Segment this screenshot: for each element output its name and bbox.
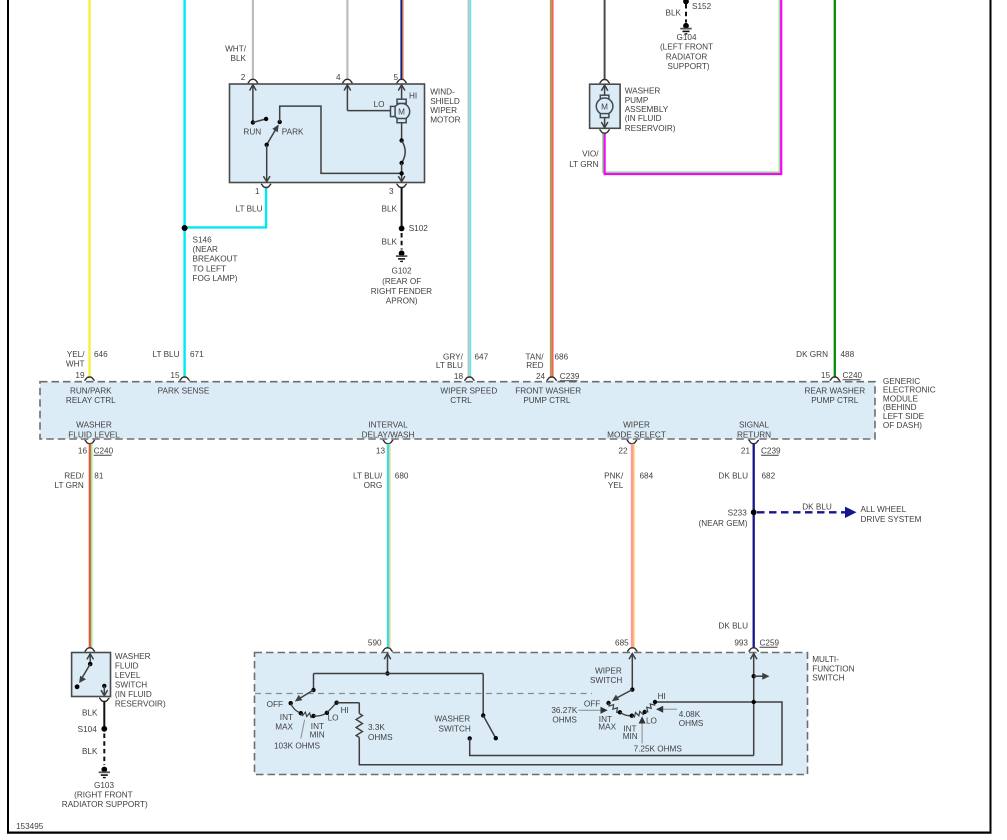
svg-text:(REAR OF: (REAR OF	[382, 277, 421, 286]
svg-text:BLK: BLK	[82, 747, 98, 756]
delay rotary HI contact	[334, 701, 348, 716]
svg-text:MULTI-: MULTI-	[812, 655, 839, 664]
svg-text:FLUID LEVEL: FLUID LEVEL	[68, 430, 120, 439]
wire washer switch contact to signal return	[470, 738, 754, 755]
svg-text:RETURN: RETURN	[737, 430, 771, 439]
svg-text:21: 21	[741, 446, 751, 455]
svg-text:DRIVE SYSTEM: DRIVE SYSTEM	[861, 515, 922, 524]
svg-text:15: 15	[170, 371, 180, 380]
svg-text:SWITCH: SWITCH	[590, 676, 622, 685]
svg-text:LT GRN: LT GRN	[55, 481, 84, 490]
connector pin 590 (MFS)	[368, 638, 393, 651]
svg-text:VIO/: VIO/	[582, 149, 599, 158]
svg-text:MODE SELECT: MODE SELECT	[607, 430, 666, 439]
wire motor bottom to park cam	[401, 123, 403, 141]
svg-text:685: 685	[615, 638, 629, 647]
svg-text:BREAKOUT: BREAKOUT	[193, 255, 238, 264]
wire WHT (wiper motor pin 4)	[346, 0, 348, 80]
svg-text:SHIELD: SHIELD	[430, 97, 460, 106]
svg-text:G103: G103	[94, 781, 114, 790]
wire WHT/BLK (wiper motor pin 2)	[225, 0, 253, 80]
svg-text:RELAY CTRL: RELAY CTRL	[66, 396, 116, 405]
svg-text:DK BLU: DK BLU	[718, 622, 748, 631]
svg-text:C240: C240	[843, 371, 863, 380]
wire DK BLU dashed to all wheel drive system	[757, 502, 857, 518]
svg-text:WIPER: WIPER	[623, 421, 650, 430]
wire DK GRN 488	[796, 0, 854, 377]
GEM label rear washer pump ctrl	[804, 387, 865, 405]
svg-text:22: 22	[618, 446, 628, 455]
svg-text:LT BLU: LT BLU	[153, 350, 180, 359]
svg-text:G102: G102	[391, 266, 411, 275]
svg-text:OFF: OFF	[584, 700, 600, 709]
svg-text:SUPPORT): SUPPORT)	[667, 62, 709, 71]
delay rotary track LO to HI	[327, 703, 337, 713]
svg-text:S146: S146	[193, 235, 213, 244]
connector pin 993 C259 (MFS)	[734, 638, 779, 651]
wire BLK dashed S104 to G103	[82, 734, 104, 766]
multi-function switch box	[255, 653, 808, 775]
svg-text:16: 16	[78, 446, 88, 455]
svg-text:WHT/: WHT/	[225, 44, 247, 53]
svg-text:81: 81	[94, 472, 104, 481]
svg-text:WASHER: WASHER	[625, 87, 661, 96]
svg-text:WASHER: WASHER	[76, 421, 112, 430]
connector pin 24 C239 (GEM)	[536, 372, 580, 381]
svg-text:590: 590	[368, 638, 382, 647]
svg-text:LEVEL: LEVEL	[115, 671, 141, 680]
svg-text:682: 682	[762, 472, 776, 481]
wire 3.3K bottom loop to wiper switch HI	[359, 702, 782, 765]
svg-text:3.3K: 3.3K	[368, 723, 385, 732]
delay rotary OFF contact	[267, 700, 293, 709]
svg-text:ASSEMBLY: ASSEMBLY	[625, 105, 669, 114]
svg-text:3: 3	[389, 187, 394, 196]
svg-text:INTERVAL: INTERVAL	[368, 421, 408, 430]
motor M2 (washer pump)	[596, 85, 613, 128]
svg-text:HI: HI	[658, 692, 666, 701]
svg-text:YEL: YEL	[608, 481, 624, 490]
svg-text:RIGHT FENDER: RIGHT FENDER	[371, 287, 432, 296]
svg-text:SWITCH: SWITCH	[439, 724, 471, 733]
svg-text:ELECTRONIC: ELECTRONIC	[883, 386, 936, 395]
svg-text:PUMP CTRL: PUMP CTRL	[811, 396, 859, 405]
svg-text:FLUID: FLUID	[115, 662, 139, 671]
wiper mode rotary blade	[612, 690, 633, 702]
connector pin 22 (GEM bottom)	[618, 440, 637, 455]
label washer fluid level switch	[115, 652, 166, 709]
svg-text:PARK: PARK	[282, 128, 304, 137]
svg-text:RESERVOIR): RESERVOIR)	[115, 700, 166, 709]
delay rotary INT MIN contact	[310, 714, 325, 740]
park cam arc contact	[399, 138, 405, 165]
svg-text:PUMP CTRL: PUMP CTRL	[523, 396, 571, 405]
svg-text:S104: S104	[78, 725, 98, 734]
wire pin 685 to wiper mode rotary	[629, 653, 636, 692]
svg-text:LT BLU: LT BLU	[436, 361, 463, 370]
svg-text:(RIGHT FRONT: (RIGHT FRONT	[74, 791, 133, 800]
svg-text:DK GRN: DK GRN	[796, 350, 828, 359]
connector pin (fluid switch top)	[85, 648, 95, 652]
svg-text:WASHER: WASHER	[434, 715, 470, 724]
svg-text:5: 5	[393, 73, 398, 82]
GEM label front washer pump ctrl	[515, 387, 581, 405]
svg-text:18: 18	[454, 372, 464, 381]
GEM label signal return	[737, 421, 771, 440]
wiper mode rotary LO contact	[643, 710, 657, 726]
svg-text:36.27K: 36.27K	[551, 706, 577, 715]
wire YEL/WHT 646	[66, 0, 108, 377]
wiper mode rotary HI contact	[653, 692, 666, 704]
svg-text:FOG LAMP): FOG LAMP)	[193, 274, 238, 283]
svg-text:YEL/: YEL/	[67, 350, 85, 359]
splice S146	[182, 225, 238, 283]
wire TAN/RED 686	[525, 0, 568, 377]
svg-text:HI: HI	[341, 706, 349, 715]
svg-text:1: 1	[255, 187, 260, 196]
splice S233	[698, 509, 756, 528]
svg-text:LT BLU/: LT BLU/	[353, 472, 383, 481]
svg-text:C239: C239	[560, 372, 580, 381]
connector pin 21 C239 (GEM bottom)	[741, 440, 781, 455]
resistor 3.3K OHMS	[356, 714, 393, 742]
svg-text:WIND-: WIND-	[430, 88, 455, 97]
svg-text:DELAY/WASH: DELAY/WASH	[362, 430, 415, 439]
svg-text:(BEHIND: (BEHIND	[883, 403, 917, 412]
svg-text:INT: INT	[280, 713, 293, 722]
svg-text:REAR WASHER: REAR WASHER	[804, 387, 865, 396]
wire BLK fluid switch to S104	[82, 701, 104, 728]
mechanical link dashed line	[255, 693, 592, 695]
washer switch	[434, 674, 498, 741]
splice S104	[78, 725, 108, 734]
wire VIO/LT GRN (washer pump to top)	[569, 0, 781, 174]
label multi-function switch	[812, 655, 854, 683]
connector pin 4 (wiper motor)	[336, 73, 353, 83]
svg-text:646: 646	[94, 350, 108, 359]
svg-text:ALL WHEEL: ALL WHEEL	[861, 505, 907, 514]
svg-text:RESERVOIR): RESERVOIR)	[625, 124, 676, 133]
svg-text:OHMS: OHMS	[552, 715, 577, 724]
svg-text:24: 24	[536, 372, 546, 381]
wire RED/LT GRN 81	[55, 444, 104, 648]
connector pin 15 C240 (GEM rear washer)	[821, 371, 863, 381]
svg-text:7.25K OHMS: 7.25K OHMS	[634, 745, 683, 754]
wiper mode rotary INT MIN contact	[623, 714, 638, 741]
wire PNK/YEL 684	[604, 444, 653, 648]
wire BLK dashed S102 to G102	[382, 233, 402, 250]
GEM label wiper mode select	[607, 421, 666, 440]
connector pin 18 (GEM)	[454, 372, 475, 381]
ground G104	[660, 23, 713, 71]
svg-text:HI: HI	[409, 92, 417, 101]
svg-text:153495: 153495	[16, 822, 44, 831]
svg-text:686: 686	[555, 352, 569, 361]
svg-text:LEFT SIDE: LEFT SIDE	[883, 412, 925, 421]
label 103K OHMS with callout	[274, 720, 320, 751]
svg-text:647: 647	[475, 352, 489, 361]
svg-text:WIPER SPEED: WIPER SPEED	[440, 387, 497, 396]
splice S152	[683, 0, 711, 11]
svg-text:15: 15	[821, 371, 831, 380]
svg-text:RUN/PARK: RUN/PARK	[70, 387, 112, 396]
svg-text:WASHER: WASHER	[115, 652, 151, 661]
wire blade pivot to pin 1	[263, 145, 270, 182]
svg-text:FRONT WASHER: FRONT WASHER	[515, 387, 581, 396]
svg-text:BLK: BLK	[382, 238, 398, 247]
wiper mode rotary OFF contact	[584, 700, 611, 709]
resistor 4.08K (squiggle LO to HI)	[645, 702, 655, 712]
delay rotary track OFF to INT MAX	[291, 703, 301, 713]
svg-text:BLK: BLK	[231, 54, 247, 63]
svg-text:C240: C240	[94, 446, 114, 455]
wire BLK pin3 to S102	[382, 187, 402, 228]
svg-text:(IN FLUID: (IN FLUID	[115, 690, 152, 699]
svg-text:S152: S152	[692, 2, 712, 11]
ground G102	[371, 250, 432, 305]
wiper mode rotary track INT MAX to INT MIN	[620, 712, 632, 715]
generic electronic module box	[40, 382, 875, 439]
svg-text:13: 13	[376, 446, 386, 455]
svg-text:BLK: BLK	[666, 9, 682, 18]
wire pin5 to motor top	[398, 85, 417, 101]
wire BLK (washer pump feed)	[604, 0, 606, 80]
svg-text:APRON): APRON)	[386, 297, 418, 306]
svg-text:SIGNAL: SIGNAL	[739, 421, 769, 430]
connector pin (fluid switch bottom)	[99, 698, 109, 702]
svg-text:LT BLU: LT BLU	[236, 205, 263, 214]
connector pin 19 (GEM)	[75, 371, 94, 381]
delay rotary LO contact	[325, 711, 339, 723]
wire PARK contact feed to pin 3 node	[280, 106, 402, 173]
resistor 36.27K (squiggle OFF to INT MAX)	[609, 703, 620, 712]
delay rotary track INT MIN to LO	[314, 713, 327, 716]
splice S102	[399, 224, 429, 233]
svg-text:DK BLU: DK BLU	[802, 502, 832, 511]
label all wheel drive system	[861, 505, 922, 524]
connector pin 1 (wiper motor)	[255, 184, 271, 196]
connector pin 685 (MFS)	[615, 638, 637, 651]
wire BLK dashed S152 to G104	[666, 4, 686, 23]
svg-text:G104: G104	[676, 33, 696, 42]
svg-text:MODULE: MODULE	[883, 394, 919, 403]
svg-text:OFF: OFF	[267, 700, 283, 709]
svg-text:RUN: RUN	[243, 128, 261, 137]
label wiper switch	[590, 666, 622, 685]
svg-text:671: 671	[190, 350, 204, 359]
svg-text:(NEAR: (NEAR	[193, 245, 219, 254]
washer fluid level switch box	[72, 653, 111, 697]
resistor 7.25K (squiggle INT MIN to LO)	[632, 711, 645, 717]
svg-text:SWITCH: SWITCH	[812, 674, 844, 683]
svg-text:CTRL: CTRL	[450, 396, 472, 405]
delay rotary blade	[295, 688, 316, 702]
svg-text:C259: C259	[760, 638, 780, 647]
svg-text:PARK SENSE: PARK SENSE	[158, 387, 210, 396]
svg-text:(IN FLUID: (IN FLUID	[625, 114, 662, 123]
svg-text:(NEAR GEM): (NEAR GEM)	[698, 519, 747, 528]
svg-text:BLK: BLK	[382, 204, 398, 213]
label 36.27K OHMS with arrow	[551, 706, 607, 724]
connector pin 2 (wiper motor)	[241, 73, 258, 83]
connector pin 15 (GEM park sense)	[170, 371, 189, 381]
RUN contact	[243, 117, 268, 137]
svg-text:M: M	[398, 108, 405, 117]
svg-text:WIPER: WIPER	[430, 106, 457, 115]
svg-text:PUMP: PUMP	[625, 96, 649, 105]
svg-text:MAX: MAX	[275, 723, 293, 732]
svg-text:LT GRN: LT GRN	[569, 160, 598, 169]
windshield wiper motor box	[230, 84, 425, 183]
connector pin (washer pump bottom)	[599, 130, 609, 134]
wire park cam to pin 3	[398, 163, 405, 182]
svg-text:RED: RED	[526, 361, 543, 370]
svg-text:OHMS: OHMS	[679, 719, 704, 728]
svg-text:993: 993	[734, 638, 748, 647]
svg-text:C239: C239	[761, 446, 781, 455]
connector pin 16 C240 (GEM bottom)	[78, 440, 114, 455]
wire DK BLU 682	[718, 444, 775, 648]
wire LT BLU/ORG 680	[353, 444, 409, 648]
ground G103	[62, 767, 148, 810]
svg-text:OF DASH): OF DASH)	[883, 421, 922, 430]
connector pin (washer pump top)	[599, 80, 609, 84]
wire LT BLU branch S146 to wiper motor pin 1	[185, 187, 267, 227]
wire pin2 to RUN contact	[250, 85, 257, 123]
label 7.25K OHMS with arrow	[634, 716, 683, 753]
fluid level switch contacts	[75, 654, 94, 690]
fluid level switch output contact	[101, 684, 108, 696]
GEM label run/park relay ctrl	[66, 387, 116, 405]
svg-text:LO: LO	[646, 717, 657, 726]
svg-text:4.08K: 4.08K	[679, 710, 701, 719]
wiper mode rotary INT MAX contact	[598, 710, 622, 732]
svg-text:TO LEFT: TO LEFT	[193, 264, 227, 273]
wire signal return pin 993	[750, 653, 757, 755]
wire GRY/LT BLU 647	[436, 0, 489, 377]
svg-text:MIN: MIN	[623, 732, 638, 741]
svg-text:WIPER: WIPER	[595, 666, 622, 675]
wire pin 590 feed	[314, 653, 484, 690]
label generic electronic module	[883, 377, 936, 430]
svg-text:680: 680	[395, 472, 409, 481]
signal return branch arrow	[754, 673, 770, 680]
wire DK BLU/ORG (wiper motor pin 5)	[401, 0, 403, 80]
svg-text:MAX: MAX	[598, 723, 616, 732]
svg-text:MIN: MIN	[310, 731, 325, 740]
svg-text:M: M	[601, 102, 608, 111]
svg-text:19: 19	[75, 371, 85, 380]
svg-text:SWITCH: SWITCH	[115, 681, 147, 690]
connector pin 13 (GEM bottom)	[376, 440, 393, 455]
svg-text:ORG: ORG	[364, 481, 383, 490]
svg-text:PNK/: PNK/	[604, 472, 624, 481]
wire LT BLU 671	[153, 0, 205, 377]
svg-text:DK BLU: DK BLU	[718, 472, 748, 481]
GEM label interval delay/wash	[362, 421, 415, 440]
resistor 103K (squiggle INT MAX to INT MIN)	[301, 712, 314, 717]
svg-text:S233: S233	[728, 509, 748, 518]
svg-text:BLK: BLK	[82, 709, 98, 718]
svg-text:RADIATOR: RADIATOR	[666, 52, 708, 61]
svg-text:RADIATOR SUPPORT): RADIATOR SUPPORT)	[62, 800, 148, 809]
GEM label wiper speed ctrl	[440, 387, 497, 405]
svg-text:488: 488	[841, 350, 855, 359]
motor M1 (wiper)	[391, 99, 410, 123]
svg-text:S102: S102	[409, 224, 429, 233]
svg-text:INT: INT	[311, 722, 324, 731]
washer pump assembly box	[590, 84, 621, 128]
connector pin 3 (wiper motor)	[389, 184, 407, 196]
svg-text:4: 4	[336, 73, 341, 82]
svg-text:LO: LO	[374, 100, 385, 109]
svg-text:OHMS: OHMS	[368, 733, 393, 742]
PARK contact	[278, 120, 305, 137]
label windshield wiper motor	[430, 88, 460, 125]
wire HI to 3.3K resistor	[337, 702, 360, 704]
svg-text:MOTOR: MOTOR	[430, 116, 460, 125]
connector pin 5 (wiper motor)	[393, 73, 406, 83]
wire pin4 to LO brush	[344, 85, 391, 111]
GEM label washer fluid level	[68, 421, 120, 440]
label washer pump assembly	[625, 87, 676, 133]
svg-text:LO: LO	[328, 714, 339, 723]
label 4.08K OHMS with arrow	[656, 706, 704, 729]
svg-text:684: 684	[640, 472, 654, 481]
svg-text:FUNCTION: FUNCTION	[812, 664, 854, 673]
svg-text:GENERIC: GENERIC	[883, 377, 920, 386]
run/park switch blade	[265, 124, 279, 147]
svg-text:RED/: RED/	[64, 472, 84, 481]
svg-text:WHT: WHT	[66, 360, 85, 369]
svg-text:2: 2	[241, 73, 246, 82]
delay rotary INT MAX contact	[275, 711, 303, 732]
svg-text:(LEFT FRONT: (LEFT FRONT	[660, 43, 713, 52]
svg-text:103K OHMS: 103K OHMS	[274, 741, 320, 750]
